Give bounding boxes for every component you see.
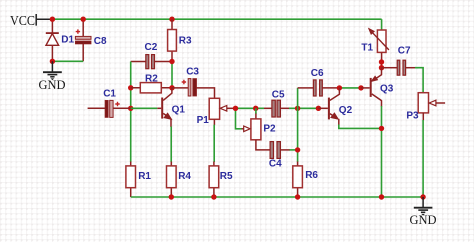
node P1 wiper xyxy=(233,106,238,111)
node GND right xyxy=(420,194,425,199)
svg-text:C2: C2 xyxy=(145,42,158,53)
wire C7 right to P3 top xyxy=(415,68,423,93)
svg-text:R3: R3 xyxy=(179,36,192,47)
svg-text:D1: D1 xyxy=(61,35,74,46)
rheostat T1 xyxy=(369,19,389,62)
node C2 right / R3 bottom xyxy=(169,59,174,64)
node R3 top xyxy=(169,17,174,22)
svg-text:P1: P1 xyxy=(197,115,210,126)
port VCC pin xyxy=(36,14,50,26)
svg-text:C4: C4 xyxy=(269,159,282,170)
node R5 bottom xyxy=(211,194,216,199)
svg-text:C8: C8 xyxy=(94,36,107,47)
wire node to C5 xyxy=(256,107,264,109)
wire P3 bottom to ground rail xyxy=(422,120,424,197)
svg-text:C3: C3 xyxy=(186,66,199,77)
node C8 top xyxy=(81,17,86,22)
wire Q1 emitter to R4 xyxy=(170,127,172,163)
svg-text:Q2: Q2 xyxy=(339,105,353,116)
resistor R1 xyxy=(126,162,136,198)
svg-text:R2: R2 xyxy=(145,73,158,84)
svg-text:Q3: Q3 xyxy=(380,84,394,95)
node R2 left xyxy=(128,85,133,90)
node Q2 base pin xyxy=(316,106,321,111)
svg-text:R6: R6 xyxy=(305,170,318,181)
node Q3 base pin xyxy=(358,85,363,90)
wire trunk to Q2 base node xyxy=(298,107,319,109)
wire Q3 collector down xyxy=(381,106,383,197)
capacitor C5 xyxy=(264,100,290,117)
wire C6 right to Q3 base xyxy=(339,87,361,89)
svg-text:C1: C1 xyxy=(103,88,116,99)
capacitor C3 xyxy=(172,79,215,99)
svg-text:GND: GND xyxy=(39,77,66,92)
wire Q2 emitter to Q3 collector trunk xyxy=(339,125,382,129)
transistor Q3 xyxy=(361,68,382,107)
wire left trunk x=130.7 xyxy=(130,62,132,163)
node R2 right / Q1 collector xyxy=(169,85,174,90)
resistor R4 xyxy=(167,162,177,198)
diode D1 xyxy=(46,19,59,61)
node P2 top xyxy=(253,106,258,111)
resistor R5 xyxy=(209,162,219,198)
svg-text:C7: C7 xyxy=(398,45,411,56)
svg-text:C5: C5 xyxy=(272,89,285,100)
capacitor C4 xyxy=(270,142,290,159)
capacitor C7 xyxy=(382,60,416,75)
wire C4 right to trunk xyxy=(290,149,298,151)
node C4 right xyxy=(295,147,300,152)
node C5 right xyxy=(295,106,300,111)
wire top VCC rail xyxy=(52,18,381,20)
svg-text:Q1: Q1 xyxy=(172,104,186,115)
node T1 bottom xyxy=(379,59,384,64)
potentiometer P3 xyxy=(418,93,445,121)
transistor Q2 xyxy=(318,88,339,125)
resistor R6 xyxy=(293,162,303,198)
node Q3 collector rail xyxy=(379,194,384,199)
wire D1 to C8 bottom xyxy=(52,60,83,62)
svg-text:P3: P3 xyxy=(406,111,419,122)
resistor R2 xyxy=(131,83,172,93)
transistor Q1 xyxy=(157,88,172,127)
wire Q1 base xyxy=(131,107,158,109)
svg-text:R5: R5 xyxy=(220,171,233,182)
node C6 right / Q2 collector xyxy=(337,85,342,90)
node C1 right xyxy=(128,106,133,111)
resistor R3 xyxy=(168,19,177,61)
svg-text:T1: T1 xyxy=(361,43,373,54)
svg-text:R4: R4 xyxy=(178,171,191,182)
node Q2 emitter / Q3 collector xyxy=(379,126,384,131)
wire P1 bottom to R5 xyxy=(213,125,215,162)
svg-text:VCC: VCC xyxy=(10,14,35,29)
node VCC/D1 xyxy=(50,17,55,22)
wire mid trunk x=297.6 xyxy=(297,88,299,162)
node R4 bottom xyxy=(169,194,174,199)
wire C5 right to trunk xyxy=(289,107,298,109)
svg-text:R1: R1 xyxy=(138,171,151,182)
node D1 bottom xyxy=(50,59,55,64)
svg-text:GND: GND xyxy=(410,212,437,227)
wire bottom ground rail xyxy=(131,196,423,198)
svg-text:C6: C6 xyxy=(311,68,324,79)
node R6 bottom xyxy=(295,194,300,199)
capacitor C6 xyxy=(298,80,340,96)
ground left xyxy=(43,61,62,80)
node C7 left / Q3 emitter xyxy=(379,65,384,70)
wire R3/C2 trunk to R2 right xyxy=(171,62,173,88)
svg-text:P2: P2 xyxy=(263,124,276,135)
wire P2 wiper branch xyxy=(236,108,242,129)
ground right xyxy=(414,197,433,216)
potentiometer P2 xyxy=(242,108,271,150)
capacitor C2 xyxy=(131,55,172,69)
wire P1 wiper to P2 top node xyxy=(236,107,256,109)
capacitor C8 xyxy=(75,19,91,61)
potentiometer P1 xyxy=(209,98,235,125)
wire T1 bottom to C7 node xyxy=(381,62,383,68)
capacitor C1 xyxy=(88,100,131,117)
